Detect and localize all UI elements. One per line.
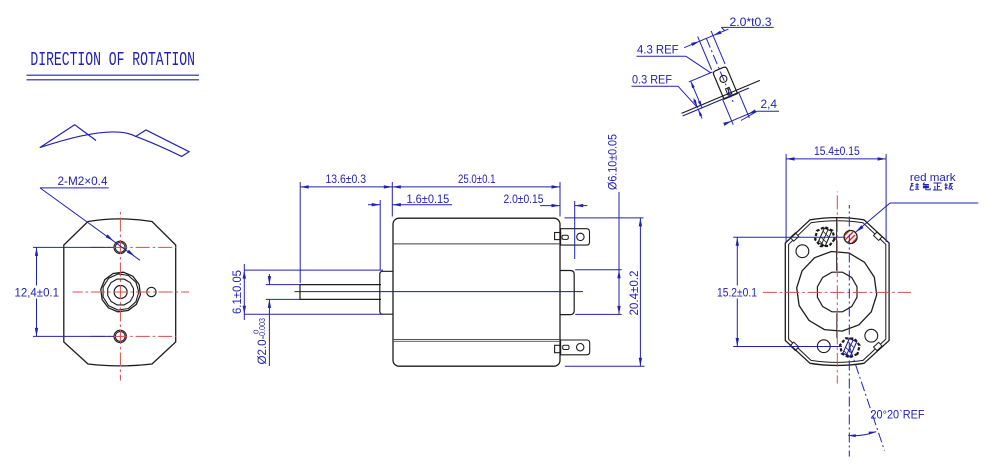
dim 20.4 dimension line xyxy=(639,218,641,366)
dim 1.6 left tail xyxy=(368,204,380,206)
dim 13.6 left extension xyxy=(299,182,301,283)
dim Ø6.10 up arrow xyxy=(617,270,620,279)
dim 15.2 dimension line xyxy=(736,237,738,346)
dim 25.0 dimension line xyxy=(392,186,560,188)
detail dim 0.3 up arrow xyxy=(697,109,702,117)
detail text 0.3 underline xyxy=(632,85,679,87)
detail tab slot xyxy=(725,87,731,95)
dim 15.2 bottom extension xyxy=(733,346,842,348)
svg-text:1.6±0.15: 1.6±0.15 xyxy=(407,192,450,206)
dim text 15.2±0.1 xyxy=(716,286,759,299)
detail dim 4.3 up arrow xyxy=(689,81,694,89)
middle view motor body xyxy=(393,218,560,366)
middle view top terminal tab xyxy=(555,233,561,240)
dim 20.4 top extension xyxy=(565,217,644,219)
detail leader 2.0 xyxy=(721,27,725,31)
left view horizontal centerline xyxy=(73,291,189,293)
dim Ø2.0 bottom extension xyxy=(266,298,300,300)
right view plain hole top-left xyxy=(796,245,809,258)
detail text 2.0 underline xyxy=(721,26,773,28)
right view horizontal centerline xyxy=(763,291,911,293)
left view: motor front outline xyxy=(64,219,176,366)
left view pinion hole xyxy=(147,287,156,296)
text 红色正极 (drawn glyphs) xyxy=(910,183,919,190)
detail dim 4.3 down arrow xyxy=(698,101,703,109)
left view shaft hole xyxy=(114,286,127,299)
dim 1.6 right arrow xyxy=(392,203,401,206)
detail dim 2.0 right arrow xyxy=(712,31,721,37)
middle view shaft axis line xyxy=(295,291,584,293)
title underline lower xyxy=(27,79,200,81)
svg-text:Ø2.0-: Ø2.0- xyxy=(255,336,269,365)
dim Ø6.10 dimension line xyxy=(618,192,620,314)
rotation arrow tail flag xyxy=(136,130,189,156)
dim Ø2.0 lower tail xyxy=(268,299,270,366)
dim 12.4 top arrow xyxy=(35,247,38,256)
detail dim 0.3 down arrow xyxy=(693,100,698,108)
left view center bearing rings xyxy=(101,272,141,312)
detail view group (terminal cross-section rotated) xyxy=(656,21,771,142)
rotation arrow head (open) xyxy=(40,125,96,148)
dim 25.0 right extension xyxy=(559,182,561,217)
detail dim 2.0 right extension xyxy=(711,31,725,64)
dim 1.6 left arrow xyxy=(372,203,381,206)
svg-text:15.4±0.15: 15.4±0.15 xyxy=(814,144,860,158)
middle view shaft xyxy=(300,285,381,300)
dim 12.4 dimension line xyxy=(36,247,38,336)
dim text 12,4±0.1 xyxy=(13,286,60,299)
dim 2.0 right tail xyxy=(575,205,588,207)
detail leader 0.3 xyxy=(678,86,698,108)
dim 20.4 bottom extension xyxy=(565,365,645,367)
svg-text:0.3 REF: 0.3 REF xyxy=(632,73,672,87)
detail dim 2.4 left extension xyxy=(723,100,733,125)
detail base line B (0.3 offset) xyxy=(683,88,749,116)
dim 15.4 dimension line xyxy=(786,158,886,160)
svg-text:6.1±0.05: 6.1±0.05 xyxy=(230,270,244,314)
detail axis dash-dot xyxy=(706,38,733,102)
detail dim 0.3 upper tail xyxy=(694,98,697,106)
label 2-M2 leader arrow 1 xyxy=(106,234,114,240)
left view vertical centerline xyxy=(119,210,121,381)
detail dim 2.4 left arrow xyxy=(723,119,732,125)
detail tab hole xyxy=(719,74,728,83)
dim 6.1 top extension xyxy=(244,269,383,271)
label 2-M2 leader line xyxy=(40,188,140,260)
red mark leader xyxy=(855,203,978,232)
detail text 2,4 underline xyxy=(757,110,779,112)
detail text 4.3 underline xyxy=(637,55,686,57)
label 2-M2 leader arrow 2 xyxy=(127,250,135,256)
right view inner circle xyxy=(817,272,857,312)
dim 13.6 right arrow xyxy=(384,185,393,188)
detail leader 4.3 xyxy=(686,56,711,72)
right view big circle xyxy=(797,252,877,332)
angle arc left arrow xyxy=(848,434,856,437)
right view seam line top xyxy=(836,217,838,271)
right view corner notch bottom-left xyxy=(790,342,799,350)
left view bottom M2 hole xyxy=(114,330,126,342)
right view inner offset outline xyxy=(789,221,886,363)
svg-text:Ø6.10±0.05: Ø6.10±0.05 xyxy=(606,134,620,190)
middle view lower seam line 2 xyxy=(394,340,560,342)
left view bottom hole centerline xyxy=(88,335,177,337)
detail dim 4.3 dimension line xyxy=(691,81,702,108)
svg-text:DIRECTION OF ROTATION: DIRECTION OF ROTATION xyxy=(30,49,195,71)
dim 20.4 up arrow xyxy=(639,218,642,227)
dim 2.0 left tail xyxy=(540,205,560,207)
dim Ø6.10 down arrow xyxy=(617,306,620,315)
dim 6.1 down arrow xyxy=(243,306,246,315)
middle view left bearing boss xyxy=(380,271,393,314)
dim Ø2.0 top extension xyxy=(266,284,300,286)
dim 13.6 left arrow xyxy=(300,185,309,188)
left view top hole centerline xyxy=(88,246,177,248)
right view corner notch top-left xyxy=(790,233,799,241)
dim 1.6 tail line xyxy=(392,204,452,206)
right view vertical centerline xyxy=(836,192,838,384)
svg-text:20.4±0.2: 20.4±0.2 xyxy=(627,270,641,315)
dim Ø2.0 down arrow xyxy=(268,276,271,285)
dim 15.4 left arrow xyxy=(786,157,795,160)
dim 15.4 left extension xyxy=(785,154,787,242)
left view top M2 hole xyxy=(114,241,126,253)
dim 6.1 dimension line xyxy=(243,264,245,320)
dim 12.4 bottom arrow xyxy=(35,328,38,337)
dim 1.6 left extension xyxy=(379,200,381,270)
angle dim arc xyxy=(848,432,876,436)
svg-text:2,4: 2,4 xyxy=(761,97,778,111)
detail base line A (case surface) xyxy=(681,80,759,113)
dim 12.4 top extension line xyxy=(33,246,114,248)
right view plain hole bottom-right xyxy=(865,329,878,342)
dim 13.6 dimension line xyxy=(300,186,392,188)
dim Ø6.10 bottom extension xyxy=(575,313,622,315)
right view top terminal (screw head) xyxy=(815,227,835,246)
dim 25.0 left arrow xyxy=(392,185,401,188)
dim 2.0 right extension xyxy=(574,201,576,259)
dim 13.6/25.0 shared extension xyxy=(391,182,393,217)
dim 6.1 bottom extension xyxy=(244,313,383,315)
svg-text:20°20`REF: 20°20`REF xyxy=(871,407,925,421)
red mark circle (hatched) xyxy=(840,229,861,255)
dim 15.4 right arrow xyxy=(878,157,887,160)
middle view right bearing boss xyxy=(560,271,574,315)
dim 12.4 bottom extension line xyxy=(33,335,114,337)
svg-text:12,4±0.1: 12,4±0.1 xyxy=(15,285,60,299)
svg-text:0: 0 xyxy=(254,329,261,334)
dim 20.4 down arrow xyxy=(639,358,642,367)
detail leader 2,4 xyxy=(741,111,757,120)
detail dim 2.4 right extension xyxy=(739,93,749,118)
dim 6.1 up arrow xyxy=(243,270,246,279)
rotation arrow arc xyxy=(40,132,136,148)
dim 15.2 top arrow xyxy=(736,237,739,246)
dim Ø6.10 top extension xyxy=(575,269,622,271)
middle view upper seam line xyxy=(394,243,560,245)
svg-text:13.6±0.3: 13.6±0.3 xyxy=(326,172,367,186)
right view plain hole bottom-left xyxy=(817,340,830,353)
right view seam line bottom xyxy=(836,313,838,338)
svg-text:2-M2×0.4: 2-M2×0.4 xyxy=(58,174,108,188)
svg-text:4.3 REF: 4.3 REF xyxy=(637,43,679,57)
middle view lower seam line xyxy=(394,339,560,341)
svg-text:red mark: red mark xyxy=(910,172,956,184)
right view motor back outline xyxy=(785,218,889,366)
right view corner notch top-right xyxy=(874,232,883,240)
angle arc right arrow xyxy=(869,432,877,435)
dim 2.0 right arrow xyxy=(575,204,584,207)
dim 15.4 right extension xyxy=(885,154,887,242)
right view vertical dash-dot (terminal axis) xyxy=(848,205,850,457)
title underline upper xyxy=(27,74,200,76)
detail terminal tab body xyxy=(713,66,738,99)
dim 2.0 left arrow xyxy=(552,204,561,207)
detail dim 2.4 right arrow xyxy=(747,109,756,115)
middle view bottom terminal tab xyxy=(555,345,561,352)
svg-text:25.0±0.1: 25.0±0.1 xyxy=(458,172,496,186)
detail dim 2.0 left extension xyxy=(698,37,712,70)
right view angled dash-dot 20deg xyxy=(850,348,885,451)
detail dim 2.0 dimension line xyxy=(684,29,728,48)
right view corner notch bottom-right xyxy=(874,342,883,350)
dim Ø2.0 upper tail xyxy=(268,274,270,285)
dim 15.2 bottom arrow xyxy=(736,338,739,347)
detail dim 2.0 left arrow xyxy=(691,40,700,46)
svg-text:15.2±0.1: 15.2±0.1 xyxy=(717,285,757,299)
right view bottom terminal (screw head) xyxy=(840,338,860,357)
left view bearing circle xyxy=(108,279,134,305)
detail dim 4.3 top extension xyxy=(689,72,713,82)
dim 15.2 top extension xyxy=(733,236,845,238)
dim Ø2.0 up arrow xyxy=(268,299,271,308)
svg-text:2.0±0.15: 2.0±0.15 xyxy=(504,192,544,206)
detail dim 0.3 lower tail xyxy=(698,109,702,118)
detail dim 2.4 dimension line xyxy=(724,111,755,124)
red mark leader arrow xyxy=(855,225,863,232)
label 2-M2 underline xyxy=(40,187,109,189)
dim 25.0 right arrow xyxy=(552,185,561,188)
